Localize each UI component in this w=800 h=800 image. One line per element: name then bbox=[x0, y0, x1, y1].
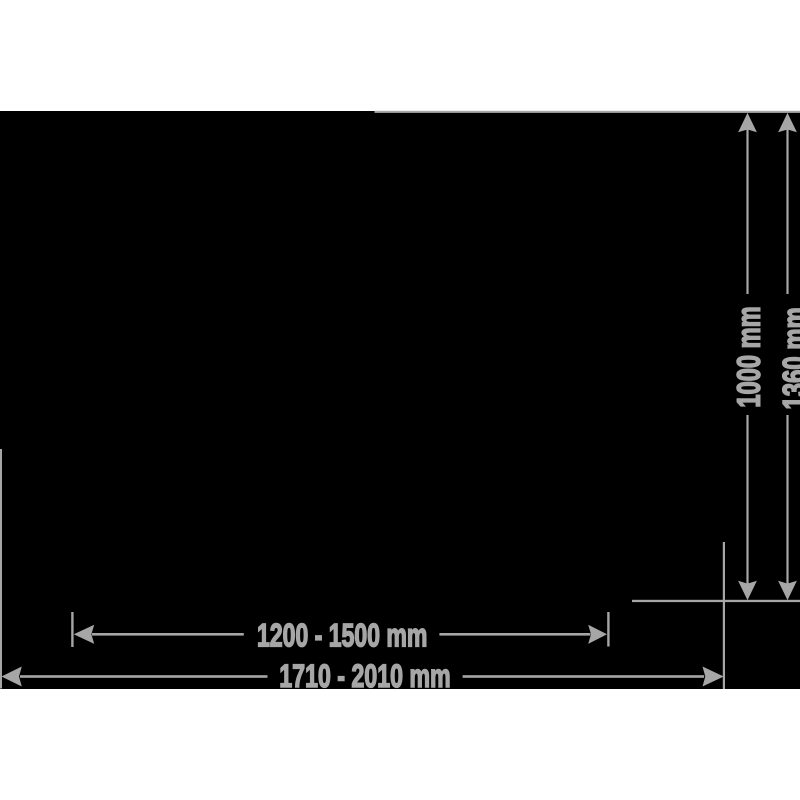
label 1360 mm (rotated) bbox=[783, 309, 800, 408]
label 1200 - 1500 mm bbox=[258, 624, 425, 647]
vertical dim line 1360 mm (x=787.5) bbox=[786, 128, 788, 294]
dim 1710-2010: arrowheads bbox=[1, 667, 21, 687]
dim 1200-1500: arrowheads bbox=[74, 625, 94, 644]
dim 1200-1500: shafts bbox=[92, 633, 244, 636]
dim 1710-2010: shafts bbox=[20, 675, 268, 678]
left extension line bbox=[0, 449, 2, 689]
top extension line bbox=[375, 111, 800, 113]
dim 1200-1500: ticks bbox=[71, 612, 73, 647]
label 1710 - 2010 mm bbox=[281, 664, 449, 687]
vertical dim line 1000 mm (x=747.5) bbox=[746, 128, 748, 294]
corner vertical extension line bbox=[723, 542, 725, 689]
label 1000 mm (rotated) bbox=[737, 308, 760, 406]
black product rectangle bbox=[0, 111, 800, 689]
corner horizontal extension line bbox=[632, 600, 800, 602]
